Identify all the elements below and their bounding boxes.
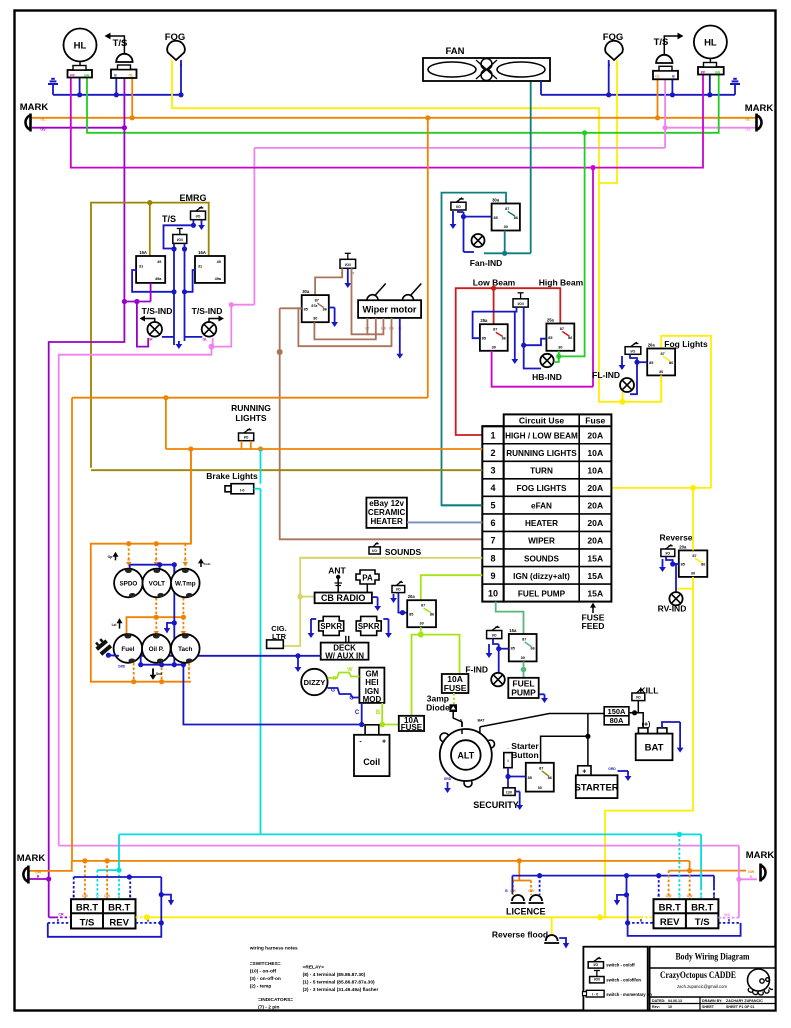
svg-text:49a: 49a <box>155 277 162 281</box>
svg-text:B: B <box>750 875 753 879</box>
svg-text:O: O <box>118 894 121 898</box>
svg-text:85: 85 <box>493 216 497 220</box>
svg-text:20A: 20A <box>587 483 603 493</box>
svg-text:20a: 20a <box>648 343 656 348</box>
svg-text:SOUNDS: SOUNDS <box>385 547 422 557</box>
svg-text:OW: OW <box>748 870 755 874</box>
svg-text:switch - on/off/on: switch - on/off/on <box>606 977 641 982</box>
svg-text:WS: WS <box>724 913 730 917</box>
svg-text:CB RADIO: CB RADIO <box>321 593 366 603</box>
svg-text:MARK: MARK <box>20 102 49 113</box>
svg-text:(7) - 2 pin: (7) - 2 pin <box>258 1004 279 1010</box>
svg-text:I/O: I/O <box>372 549 377 553</box>
svg-text:(10) - on-off: (10) - on-off <box>250 969 277 975</box>
svg-text:Circuit Use: Circuit Use <box>519 416 565 426</box>
svg-text:HL: HL <box>704 38 717 49</box>
svg-text:87: 87 <box>493 328 497 332</box>
svg-text:20A: 20A <box>587 518 603 528</box>
svg-text:25a: 25a <box>547 318 555 323</box>
svg-text:I/O: I/O <box>244 436 249 440</box>
svg-text:FOG LIGHTS: FOG LIGHTS <box>516 484 567 493</box>
svg-text:15A: 15A <box>587 588 603 598</box>
svg-text:C: C <box>355 710 360 716</box>
svg-text:20A: 20A <box>587 536 603 546</box>
svg-text:20A: 20A <box>587 431 603 441</box>
svg-text:T/S: T/S <box>80 917 95 928</box>
svg-text:Diode: Diode <box>426 703 450 713</box>
svg-text:RUNNING: RUNNING <box>231 403 271 413</box>
svg-text:RV-IND: RV-IND <box>658 604 687 614</box>
svg-text:MARK: MARK <box>17 853 46 864</box>
svg-text:10: 10 <box>488 588 498 598</box>
svg-text:SECURITY: SECURITY <box>473 800 519 810</box>
svg-text:85: 85 <box>548 336 552 340</box>
svg-text:4: 4 <box>490 483 495 493</box>
svg-text:HIGH / LOW BEAM: HIGH / LOW BEAM <box>505 432 578 441</box>
svg-text:(2) - 3 terminal (31.49.49a) f: (2) - 3 terminal (31.49.49a) flasher <box>303 987 379 993</box>
svg-text:Fuse: Fuse <box>585 416 605 426</box>
svg-text:B: B <box>376 710 381 716</box>
svg-text:GN: GN <box>715 71 721 75</box>
svg-text:15A: 15A <box>139 250 147 255</box>
svg-text:Coil: Coil <box>363 757 380 767</box>
svg-text:I/O: I/O <box>593 963 598 967</box>
svg-text:(3) - on-off-on: (3) - on-off-on <box>250 976 281 982</box>
svg-text:BR.T: BR.T <box>691 903 713 914</box>
svg-text:BR.T: BR.T <box>76 903 98 914</box>
svg-text:04.06.13: 04.06.13 <box>668 999 682 1003</box>
svg-text:85: 85 <box>528 776 532 780</box>
svg-text:10A: 10A <box>587 466 603 476</box>
svg-text:87: 87 <box>661 352 665 356</box>
svg-text:WIPER: WIPER <box>528 537 555 546</box>
svg-text:PP: PP <box>701 71 706 75</box>
svg-text:20a: 20a <box>679 544 687 549</box>
svg-text:30: 30 <box>504 225 508 229</box>
svg-text:FAN: FAN <box>446 46 465 57</box>
svg-text:49a: 49a <box>215 277 222 281</box>
svg-text:30: 30 <box>492 345 496 349</box>
svg-text:I/O/I: I/O/I <box>345 263 351 267</box>
svg-text:W: W <box>127 558 130 562</box>
svg-text:PP: PP <box>70 74 75 78</box>
svg-text:R: R <box>333 676 337 682</box>
svg-text:LTR: LTR <box>272 632 287 641</box>
svg-text:G: G <box>96 894 99 898</box>
svg-text:Rev:: Rev: <box>652 1005 660 1009</box>
svg-text:SPKR: SPKR <box>358 622 380 631</box>
svg-text:=SWITCHES=: =SWITCHES= <box>250 961 281 967</box>
svg-text:ANT: ANT <box>328 566 346 576</box>
svg-text:SHEET P1 OF 01: SHEET P1 OF 01 <box>726 1005 754 1009</box>
svg-text:I - 0: I - 0 <box>592 993 598 997</box>
svg-text:G: G <box>331 688 335 694</box>
svg-text:SPKR: SPKR <box>320 622 342 631</box>
svg-text:87: 87 <box>560 327 564 331</box>
svg-text:eBay 12v: eBay 12v <box>369 499 404 508</box>
svg-text:Op: Op <box>108 555 113 559</box>
svg-text:OL: OL <box>41 118 47 122</box>
svg-text:RUNNING LIGHTS: RUNNING LIGHTS <box>506 449 577 458</box>
svg-text:MOD: MOD <box>363 695 382 704</box>
svg-text:10: 10 <box>668 1005 672 1009</box>
svg-text:PA: PA <box>362 574 373 583</box>
svg-text:B: B <box>37 875 40 879</box>
svg-text:PUMP: PUMP <box>511 687 536 697</box>
svg-text:I1/0: I1/0 <box>506 790 512 794</box>
svg-text:I/O/I: I/O/I <box>518 302 524 306</box>
svg-text:OL: OL <box>655 75 660 79</box>
svg-text:87: 87 <box>539 766 543 770</box>
svg-text:REV: REV <box>109 917 129 928</box>
svg-text:W.Tmp: W.Tmp <box>175 581 196 588</box>
svg-text:85: 85 <box>482 336 486 340</box>
svg-text:15a: 15a <box>509 628 517 633</box>
svg-text:(2) - temp: (2) - temp <box>250 984 272 990</box>
svg-text:FOG: FOG <box>603 32 624 43</box>
svg-text:Reverse flood: Reverse flood <box>492 930 548 940</box>
svg-text:OS: OS <box>745 128 751 132</box>
svg-text:85: 85 <box>409 613 413 617</box>
svg-text:T/S: T/S <box>162 214 176 224</box>
svg-text:STARTER: STARTER <box>575 783 619 794</box>
svg-text:OL: OL <box>746 118 752 122</box>
svg-text:I-0: I-0 <box>240 489 244 493</box>
svg-text:85: 85 <box>511 647 515 651</box>
svg-text:BAT: BAT <box>645 743 664 754</box>
svg-text:B: B <box>728 919 731 923</box>
svg-text:7: 7 <box>490 536 495 546</box>
svg-text:HL: HL <box>74 41 87 52</box>
svg-text:49: 49 <box>157 260 161 264</box>
svg-text:Reverse: Reverse <box>659 533 692 543</box>
svg-text:FUEL PUMP: FUEL PUMP <box>518 589 566 598</box>
svg-text:W: W <box>184 558 187 562</box>
svg-text:Snd: Snd <box>156 672 162 676</box>
svg-text:0: 0 <box>171 63 173 67</box>
svg-text:OW: OW <box>528 889 535 893</box>
svg-text:switch - momentary on: switch - momentary on <box>606 992 652 997</box>
svg-text:T/S-IND: T/S-IND <box>142 306 173 316</box>
svg-text:(8) - 4 terminal (85.86.87.30): (8) - 4 terminal (85.86.87.30) <box>303 972 366 978</box>
svg-text:=INDICATORS=: =INDICATORS= <box>258 997 293 1003</box>
svg-text:switch - on/off: switch - on/off <box>606 963 635 968</box>
svg-text:zach.zupancic@gmail.com: zach.zupancic@gmail.com <box>677 984 727 989</box>
svg-text:Body Wiring Diagram: Body Wiring Diagram <box>676 952 750 963</box>
svg-text:5: 5 <box>490 501 495 511</box>
svg-text:eFAN: eFAN <box>531 502 552 511</box>
svg-text:30a: 30a <box>492 198 500 203</box>
svg-text:25a: 25a <box>480 318 488 323</box>
svg-text:30: 30 <box>691 571 695 575</box>
svg-text:IGN (dizzy+alt): IGN (dizzy+alt) <box>513 572 570 581</box>
svg-text:85: 85 <box>649 361 653 365</box>
svg-text:T/S: T/S <box>654 37 669 48</box>
svg-text:1: 1 <box>490 431 495 441</box>
svg-text:I/O: I/O <box>456 205 461 209</box>
svg-text:TURN: TURN <box>530 467 553 476</box>
svg-text:87: 87 <box>421 604 425 608</box>
svg-text:30: 30 <box>419 622 423 626</box>
svg-text:Button: Button <box>511 750 538 760</box>
svg-text:0: 0 <box>617 63 619 67</box>
svg-text:LIGHTS: LIGHTS <box>235 413 266 423</box>
svg-text:30a: 30a <box>302 289 310 294</box>
svg-text:I/O: I/O <box>396 588 401 592</box>
svg-text:T/S-IND: T/S-IND <box>192 306 223 316</box>
svg-text:85: 85 <box>304 307 308 311</box>
svg-text:87: 87 <box>315 299 319 303</box>
svg-text:DATED:: DATED: <box>652 999 665 1003</box>
svg-text:I/O/I: I/O/I <box>177 238 183 242</box>
svg-text:MARK: MARK <box>745 103 774 114</box>
svg-text:I: I <box>507 758 508 763</box>
svg-text:87: 87 <box>692 554 696 558</box>
svg-text:VOLT: VOLT <box>149 581 165 588</box>
svg-text:W: W <box>347 667 353 673</box>
svg-text:30: 30 <box>538 786 542 790</box>
svg-text:Fuel: Fuel <box>121 646 134 653</box>
svg-text:15A: 15A <box>587 571 603 581</box>
svg-text:FOG: FOG <box>165 32 186 43</box>
svg-text:HB-IND: HB-IND <box>532 372 562 382</box>
svg-text:W: W <box>155 558 158 562</box>
svg-text:20A: 20A <box>587 501 603 511</box>
svg-text:87: 87 <box>505 207 509 211</box>
svg-text:HEATER: HEATER <box>525 519 558 528</box>
svg-text:87a: 87a <box>311 304 318 308</box>
svg-text:10A: 10A <box>587 448 603 458</box>
svg-text:GRD: GRD <box>118 665 126 669</box>
svg-text:49: 49 <box>217 260 221 264</box>
svg-text:W/ AUX IN: W/ AUX IN <box>325 651 364 660</box>
svg-text:30: 30 <box>659 370 663 374</box>
svg-text:31: 31 <box>139 264 143 268</box>
svg-text:B: B <box>640 919 643 923</box>
svg-text:F-IND: F-IND <box>465 665 488 675</box>
svg-text:Wiper motor: Wiper motor <box>362 305 416 315</box>
svg-text:G: G <box>349 696 353 702</box>
svg-text:GRD: GRD <box>608 767 616 771</box>
svg-text:CERAMIC: CERAMIC <box>368 508 406 517</box>
svg-text:OL: OL <box>129 73 134 77</box>
svg-text:3: 3 <box>490 466 495 476</box>
svg-text:EMRG: EMRG <box>180 193 207 203</box>
svg-text:OW: OW <box>82 894 89 898</box>
svg-text:=RELAY=: =RELAY= <box>303 964 325 970</box>
svg-text:I/O: I/O <box>665 552 670 556</box>
svg-text:MARK: MARK <box>746 850 775 861</box>
svg-text:GL: GL <box>203 338 209 342</box>
svg-text:wiring harness notes: wiring harness notes <box>249 946 298 952</box>
svg-text:LICENCE: LICENCE <box>506 907 546 917</box>
svg-text:2: 2 <box>490 448 495 458</box>
svg-text:CR: CR <box>58 913 64 917</box>
svg-text:OW: OW <box>104 894 111 898</box>
svg-text:30: 30 <box>313 317 317 321</box>
svg-text:I/O: I/O <box>631 349 636 353</box>
svg-text:8: 8 <box>490 553 495 563</box>
svg-text:SOUNDS: SOUNDS <box>524 554 560 563</box>
svg-text:BR.T: BR.T <box>659 903 681 914</box>
svg-text:87: 87 <box>522 638 526 642</box>
svg-text:FEED: FEED <box>582 621 605 631</box>
svg-text:31: 31 <box>198 264 202 268</box>
svg-text:30: 30 <box>558 345 562 349</box>
svg-text:CR: CR <box>147 338 153 342</box>
svg-text:Fog Lights: Fog Lights <box>664 339 708 349</box>
svg-text:ALT: ALT <box>457 751 474 761</box>
svg-text:85: 85 <box>681 562 685 566</box>
svg-text:DRAWN BY:: DRAWN BY: <box>702 999 723 1003</box>
svg-text:FUSE: FUSE <box>444 683 467 693</box>
svg-text:I/O: I/O <box>196 215 201 219</box>
svg-text:High Beam: High Beam <box>539 278 584 288</box>
svg-text:HEATER: HEATER <box>370 517 403 526</box>
svg-text:9: 9 <box>490 571 495 581</box>
svg-text:SPDO: SPDO <box>119 581 137 588</box>
svg-text:(+): (+) <box>642 722 651 729</box>
svg-text:SHEET: SHEET <box>702 1005 715 1009</box>
svg-text:Tach: Tach <box>178 646 192 653</box>
svg-text:5mln: 5mln <box>203 562 210 566</box>
svg-text:REV: REV <box>660 917 680 928</box>
svg-text:15A: 15A <box>587 553 603 563</box>
svg-text:Fan-IND: Fan-IND <box>470 258 503 268</box>
svg-text:BR.T: BR.T <box>108 903 130 914</box>
svg-text:W: W <box>188 666 191 670</box>
svg-text:20a: 20a <box>408 594 416 599</box>
svg-text:30: 30 <box>521 656 525 660</box>
svg-text:BAT: BAT <box>477 719 485 723</box>
svg-text:+: + <box>382 739 386 746</box>
svg-text:I/O: I/O <box>492 634 497 638</box>
svg-text:6: 6 <box>490 518 495 528</box>
svg-text:GN: GN <box>84 74 90 78</box>
svg-text:FUSE: FUSE <box>401 723 423 732</box>
svg-text:ZACHARY ZUPANCIC: ZACHARY ZUPANCIC <box>726 999 763 1003</box>
svg-text:OS: OS <box>40 128 46 132</box>
svg-text:T/S: T/S <box>695 917 710 928</box>
svg-text:B: B <box>57 919 60 923</box>
svg-text:16A: 16A <box>198 250 206 255</box>
svg-text:(1) - 5 terminal (85.86.87.87a: (1) - 5 terminal (85.86.87.87a.30) <box>303 979 375 985</box>
svg-text:DIZZY: DIZZY <box>304 678 326 687</box>
svg-text:FL-IND: FL-IND <box>592 370 620 380</box>
svg-text:T/S: T/S <box>113 38 128 49</box>
svg-text:Brake Lights: Brake Lights <box>206 471 258 481</box>
svg-text:I/O/I: I/O/I <box>594 978 600 982</box>
svg-text:OW: OW <box>510 889 517 893</box>
svg-text:I/O: I/O <box>636 696 641 700</box>
svg-text:GRD: GRD <box>444 777 452 781</box>
svg-text:Oil P.: Oil P. <box>149 646 165 653</box>
svg-text:150A: 150A <box>608 707 627 716</box>
svg-text:80A: 80A <box>610 716 624 725</box>
svg-text:CrazyOctopus CADDE: CrazyOctopus CADDE <box>660 970 736 981</box>
